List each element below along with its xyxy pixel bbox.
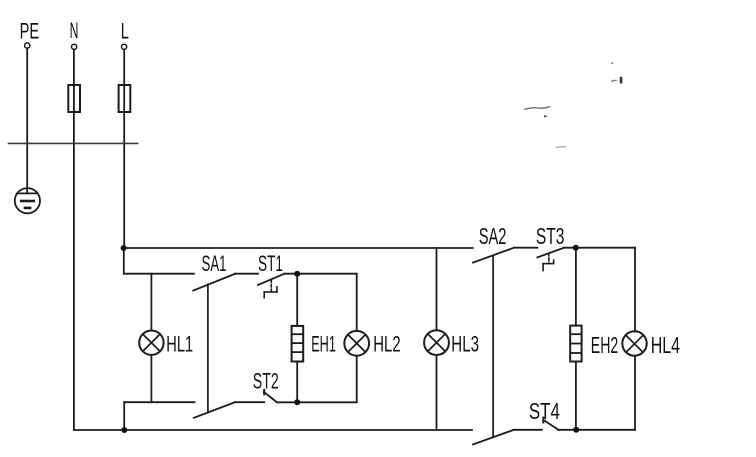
svg-text:HL2: HL2 bbox=[373, 332, 400, 357]
svg-text:L: L bbox=[121, 18, 129, 43]
svg-text:SA1: SA1 bbox=[202, 251, 227, 276]
svg-text:SA2: SA2 bbox=[479, 223, 507, 249]
svg-text:ST2: ST2 bbox=[253, 368, 279, 393]
svg-text:HL1: HL1 bbox=[166, 332, 193, 357]
svg-text:ST1: ST1 bbox=[258, 251, 283, 276]
svg-text:EH2: EH2 bbox=[591, 332, 618, 358]
svg-text:EH1: EH1 bbox=[311, 332, 336, 357]
svg-text:HL4: HL4 bbox=[651, 332, 681, 358]
svg-text:ST3: ST3 bbox=[536, 223, 565, 249]
svg-text:ST4: ST4 bbox=[529, 398, 560, 424]
svg-text:N: N bbox=[70, 18, 79, 43]
svg-text:HL3: HL3 bbox=[451, 332, 479, 357]
svg-text:PE: PE bbox=[20, 18, 39, 43]
